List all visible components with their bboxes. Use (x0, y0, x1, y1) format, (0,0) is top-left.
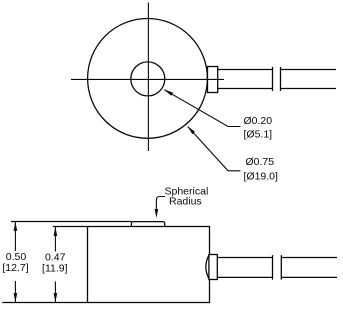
spherical radius button (side view) (131, 222, 164, 227)
dimension line 0.47 (54, 227, 56, 302)
cable segment 1 (side view) (217, 255, 272, 280)
svg-text:[11.9]: [11.9] (42, 262, 68, 274)
cable segment 2 (top view) (281, 70, 337, 89)
svg-text:Ø0.75: Ø0.75 (246, 156, 275, 168)
svg-text:Radius: Radius (169, 196, 202, 208)
dimension line 0.50 (14, 222, 16, 302)
vertical centerline (147, 3, 149, 152)
connector (side view) (206, 255, 217, 280)
body top edge extension (to 0.47 dim) (53, 226, 88, 228)
cable break bar (side view) (280, 255, 282, 280)
leader line Ø0.75 (187, 126, 240, 171)
inner circle (loading button Ø0.20) (131, 62, 165, 96)
cable segment 1 (top view) (218, 67, 273, 91)
connector (top view) (208, 67, 218, 93)
outer circle (sensor body Ø0.75) (88, 19, 208, 139)
leader line Spherical Radius (155, 197, 165, 219)
svg-text:[Ø5.1]: [Ø5.1] (244, 128, 273, 140)
horizontal centerline (71, 78, 224, 80)
svg-text:[Ø19.0]: [Ø19.0] (244, 171, 279, 183)
svg-text:Ø0.20: Ø0.20 (244, 115, 273, 127)
leader line Ø0.20 (164, 89, 241, 126)
body bottom edge extension (to 0.50 dim) (2, 302, 87, 304)
body rectangle (side view) (88, 227, 210, 303)
extension line from button top (0.50 dim) (11, 221, 132, 223)
cable segment 2 (side view) (281, 258, 337, 278)
cable break bar (top view) (280, 67, 282, 91)
svg-text:[12.7]: [12.7] (2, 262, 28, 274)
